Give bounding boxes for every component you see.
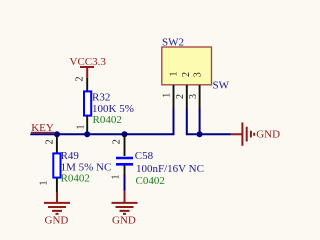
svg-text:GND: GND <box>45 215 69 227</box>
resistor R49 pin 2 (top pin) <box>56 135 58 154</box>
svg-text:2: 2 <box>181 72 192 77</box>
ground symbol right (rotated) <box>231 123 280 146</box>
svg-text:3: 3 <box>193 72 204 77</box>
svg-text:GND: GND <box>256 128 280 140</box>
ground symbol below C58 <box>112 191 138 227</box>
wire SW2 pin 2 to ground net <box>187 109 231 135</box>
svg-text:1: 1 <box>169 72 180 77</box>
svg-text:1: 1 <box>39 181 50 186</box>
svg-text:100nF/16V NC: 100nF/16V NC <box>136 163 204 175</box>
svg-text:2: 2 <box>175 94 186 99</box>
ground symbol below R49 <box>44 192 70 227</box>
wire SW2 pin 3 stub <box>199 109 201 135</box>
svg-text:1: 1 <box>76 125 87 130</box>
resistor R49 pin 1 (bottom pin) <box>56 178 58 192</box>
power VCC3.3 <box>70 56 107 78</box>
resistor R32 pin 1 (bottom pin) <box>86 116 88 133</box>
junction at C58 <box>122 131 128 137</box>
resistor R32 pin 2 (top pin) <box>86 78 88 91</box>
svg-text:GND: GND <box>112 215 136 227</box>
svg-text:2: 2 <box>112 139 123 144</box>
svg-text:SW: SW <box>213 79 230 91</box>
svg-text:C58: C58 <box>135 150 154 162</box>
svg-text:1: 1 <box>162 93 173 98</box>
switch SW2 pin 3 <box>199 85 201 109</box>
svg-text:2: 2 <box>75 77 86 82</box>
capacitor C58 <box>116 150 204 187</box>
svg-text:R0402: R0402 <box>61 173 90 185</box>
net label KEY <box>31 122 54 134</box>
resistor R32 <box>84 91 134 126</box>
svg-text:C0402: C0402 <box>136 175 165 187</box>
capacitor C58 pin 1 (bottom pin) <box>124 166 126 176</box>
capacitor C58 pin 2 (top pin) <box>124 135 126 156</box>
switch SW2 pin 2 <box>186 85 188 109</box>
svg-text:R0402: R0402 <box>93 114 122 126</box>
svg-text:1: 1 <box>111 175 122 180</box>
svg-text:R49: R49 <box>61 150 80 162</box>
svg-text:R32: R32 <box>92 91 110 103</box>
svg-text:2: 2 <box>45 139 56 144</box>
junction at SW2 pin 3 <box>197 131 203 137</box>
wire KEY horizontal bus to SW2 pin 1 <box>30 109 173 135</box>
switch SW2 <box>162 36 230 91</box>
resistor R49 <box>53 150 111 185</box>
junction at R49 <box>54 131 60 137</box>
junction at R32 <box>84 131 90 137</box>
svg-text:3: 3 <box>188 94 199 99</box>
wire C58 to ground <box>124 175 126 191</box>
switch SW2 pin 1 <box>173 85 175 109</box>
